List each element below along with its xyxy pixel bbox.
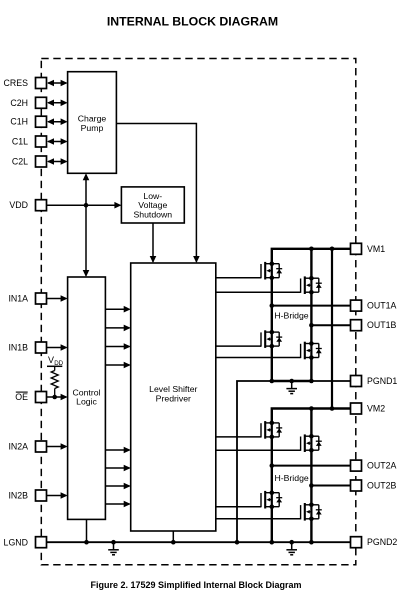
svg-text:Charge: Charge [78, 114, 107, 124]
svg-text:INTERNAL BLOCK DIAGRAM: INTERNAL BLOCK DIAGRAM [107, 14, 278, 28]
svg-text:C1H: C1H [10, 117, 28, 127]
svg-text:C2H: C2H [10, 98, 28, 108]
svg-text:OE: OE [15, 392, 28, 402]
svg-text:OUT1B: OUT1B [367, 320, 396, 330]
svg-text:PGND2: PGND2 [367, 537, 397, 547]
svg-text:Shutdown: Shutdown [133, 209, 172, 219]
svg-text:OUT2B: OUT2B [367, 481, 396, 491]
svg-text:IN1B: IN1B [8, 343, 28, 353]
svg-text:DD: DD [54, 360, 63, 367]
svg-text:LGND: LGND [4, 538, 28, 548]
svg-text:Level Shifter: Level Shifter [149, 384, 197, 394]
svg-text:Logic: Logic [76, 397, 97, 407]
svg-text:IN1A: IN1A [8, 294, 28, 304]
svg-text:OUT2A: OUT2A [367, 461, 396, 471]
svg-text:Figure 2. 17529 Simplified Int: Figure 2. 17529 Simplified Internal Bloc… [90, 580, 301, 590]
svg-text:OUT1A: OUT1A [367, 301, 396, 311]
svg-text:PGND1: PGND1 [367, 376, 397, 386]
svg-text:IN2A: IN2A [8, 442, 28, 452]
svg-text:VDD: VDD [9, 200, 28, 210]
svg-text:CRES: CRES [4, 78, 29, 88]
svg-text:IN2B: IN2B [8, 491, 28, 501]
svg-text:VM1: VM1 [367, 244, 385, 254]
svg-text:Predriver: Predriver [156, 394, 191, 404]
svg-text:H-Bridge: H-Bridge [274, 473, 308, 483]
svg-text:C1L: C1L [12, 137, 28, 147]
svg-text:Pump: Pump [81, 123, 104, 133]
svg-text:VM2: VM2 [367, 404, 385, 414]
svg-text:C2L: C2L [12, 157, 28, 167]
svg-text:H-Bridge: H-Bridge [274, 310, 308, 320]
svg-text:V: V [48, 355, 54, 365]
